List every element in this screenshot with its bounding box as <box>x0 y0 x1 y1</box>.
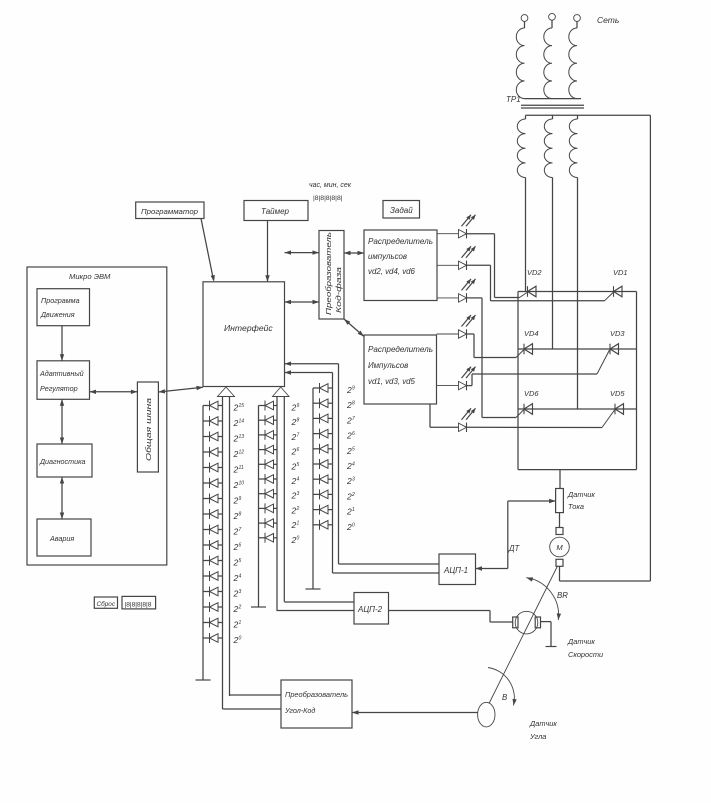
svg-text:3: 3 <box>297 491 300 497</box>
label 2^11 <box>233 465 244 475</box>
svg-text:Распределитель: Распределитель <box>368 345 433 354</box>
led A10 <box>203 540 223 550</box>
svg-text:Скорости: Скорости <box>568 650 603 659</box>
wire Интерфейс-КодФаза upper <box>285 250 320 254</box>
svg-text:5: 5 <box>239 558 242 564</box>
transformer TP1 core <box>521 105 584 108</box>
label 2^3 <box>233 589 242 599</box>
wire phase A to VD2 <box>525 178 527 292</box>
label 2^8 <box>233 511 242 521</box>
svg-text:АЦП-1: АЦП-1 <box>443 566 468 575</box>
block Программа Движения <box>37 289 90 326</box>
wire шина-Интерфейс <box>158 386 203 394</box>
svg-text:Таймер: Таймер <box>261 207 290 216</box>
block Диагностика <box>37 444 92 477</box>
led A5 <box>203 463 223 473</box>
wire Интерфейс-КодФаза lower <box>285 300 320 304</box>
svg-text:4: 4 <box>352 462 355 468</box>
wire ladder A bus to Угол-Код <box>223 695 282 709</box>
wire ladder B bus to АЦП-2 <box>277 602 354 611</box>
svg-text:Угол-Код: Угол-Код <box>284 706 315 715</box>
svg-text:13: 13 <box>239 434 245 440</box>
ground ladder B <box>251 606 266 608</box>
bus ladder A to Интерфейс (hollow arrow) <box>218 387 235 709</box>
block Программатор <box>136 202 204 219</box>
led B10 <box>259 533 278 543</box>
svg-text:Код-фаза: Код-фаза <box>334 267 343 313</box>
svg-text:8: 8 <box>239 512 242 518</box>
svg-text:4: 4 <box>239 574 242 580</box>
svg-text:7: 7 <box>239 527 242 533</box>
wire Диагностика-Авария <box>60 477 64 519</box>
current sensor Датчик Тока <box>556 489 596 513</box>
LED ladder C left rail <box>312 388 314 589</box>
svg-text:Программатор: Программатор <box>141 207 198 216</box>
svg-text:Авария: Авария <box>49 534 74 543</box>
transformer TP1 secondary windings <box>517 115 650 177</box>
label 2^5 <box>233 558 242 568</box>
svg-text:7: 7 <box>352 416 355 422</box>
bus ladder C to Интерфейс arrows <box>285 362 339 574</box>
svg-text:Сброс: Сброс <box>97 600 116 608</box>
thyristor VD3 <box>597 329 625 374</box>
svg-text:Диагностика: Диагностика <box>39 457 86 466</box>
wire gate VD1 from opto 2 <box>467 265 605 301</box>
LED ladder B left rail <box>258 406 260 608</box>
label 2^7 <box>233 527 242 537</box>
label 2^5 <box>291 461 300 471</box>
wire distributor2 to LED6 <box>430 404 459 427</box>
wire Таймер-Интерфейс <box>265 221 269 282</box>
block Сброс <box>94 597 117 608</box>
label 2^4 <box>346 461 355 471</box>
label 2^6 <box>291 447 300 457</box>
block Микро ЭВМ frame <box>27 267 167 565</box>
svg-text:9: 9 <box>352 386 355 392</box>
led C4 <box>313 429 333 439</box>
svg-text:ДТ: ДТ <box>508 544 520 553</box>
svg-text:VD5: VD5 <box>610 389 625 398</box>
motor M <box>550 513 570 581</box>
led B7 <box>259 489 278 499</box>
svg-text:VD2: VD2 <box>527 268 542 277</box>
svg-text:1: 1 <box>352 507 355 513</box>
svg-text:Тока: Тока <box>568 502 584 511</box>
led C6 <box>313 459 333 469</box>
led A6 <box>203 478 223 488</box>
svg-text:14: 14 <box>239 419 245 425</box>
wire ladder C bus to АЦП-1 <box>333 564 440 573</box>
svg-text:2: 2 <box>296 506 300 512</box>
wire phase C to row VD6-VD5 <box>577 178 579 410</box>
label 2^2 <box>233 604 242 614</box>
svg-text:8: 8 <box>352 401 355 407</box>
optocoupler LED2 <box>437 246 476 270</box>
wire gate VD2 from opto 1 <box>467 234 520 298</box>
shaft motor to angle sensor <box>489 566 558 704</box>
led B3 <box>259 430 278 440</box>
led B2 <box>259 415 278 425</box>
led B9 <box>259 518 278 528</box>
block Адаптивный Регулятор <box>37 361 90 400</box>
label 2^9 <box>233 496 242 506</box>
thyristor VD2 <box>520 268 543 298</box>
led A14 <box>203 602 223 612</box>
display час мин сек <box>309 182 352 202</box>
net Сеть terminals <box>521 13 619 28</box>
led C10 <box>313 520 333 530</box>
svg-text:1: 1 <box>239 620 242 626</box>
svg-text:М: М <box>556 543 563 552</box>
thyristor bridge frame <box>518 292 637 470</box>
block АЦП-2 <box>354 593 389 625</box>
led B6 <box>259 474 278 484</box>
svg-text:0: 0 <box>297 535 300 541</box>
svg-text:11: 11 <box>239 465 244 471</box>
led B8 <box>259 503 278 513</box>
led C2 <box>313 398 333 408</box>
svg-text:Движения: Движения <box>40 310 75 319</box>
wire tacho right to ground <box>541 622 557 647</box>
svg-text:2: 2 <box>238 605 242 611</box>
led A9 <box>203 525 223 535</box>
svg-text:VD1: VD1 <box>613 268 628 277</box>
optocoupler LED4 <box>437 315 476 339</box>
ground ladder A <box>196 679 211 681</box>
led A7 <box>203 494 223 504</box>
block Задай <box>383 201 420 219</box>
led A11 <box>203 556 223 566</box>
block Таймер <box>244 201 308 221</box>
wire АЦП-2 to tacho <box>389 611 513 623</box>
label Датчик Угла <box>529 719 557 741</box>
wire secondary neutral bus to motor <box>560 115 651 581</box>
svg-text:Программа: Программа <box>41 296 80 305</box>
led A1 <box>203 401 223 411</box>
transformer TP1 primary windings <box>506 28 581 104</box>
svg-text:9: 9 <box>297 403 300 409</box>
block Распределитель импульсов vd2 vd4 vd6 <box>364 230 437 301</box>
svg-text:|8|8|8|8|8|: |8|8|8|8|8| <box>313 195 343 202</box>
arc BR rotation <box>526 577 568 620</box>
wire gate VD6 from opto 3 <box>467 298 517 418</box>
svg-text:VD6: VD6 <box>524 389 539 398</box>
block АЦП-1 <box>439 554 476 585</box>
label Датчик Скорости <box>567 637 603 659</box>
label 2^4 <box>233 573 242 583</box>
led C1 <box>313 383 333 393</box>
svg-text:Датчик: Датчик <box>529 719 557 728</box>
wire Адаптивный-шина <box>90 390 138 394</box>
label 2^7 <box>291 432 300 442</box>
led C3 <box>313 413 333 423</box>
bus ladder B to Интерфейс (hollow arrow) <box>273 387 290 611</box>
optocoupler LED3 <box>437 279 476 303</box>
svg-text:Преобразователь: Преобразователь <box>324 232 333 315</box>
label 2^12 <box>233 449 245 459</box>
led C9 <box>313 505 333 515</box>
label 2^4 <box>291 476 300 486</box>
label 2^8 <box>291 417 300 427</box>
tachogenerator Датчик Скорости <box>513 611 541 634</box>
led B4 <box>259 445 278 455</box>
svg-text:BR: BR <box>557 591 568 600</box>
label 2^0 <box>346 522 355 532</box>
led C8 <box>313 489 333 499</box>
svg-text:1: 1 <box>297 521 300 527</box>
label 2^7 <box>346 415 355 425</box>
label 2^8 <box>346 400 355 410</box>
svg-text:6: 6 <box>352 431 355 437</box>
optocoupler LED6 <box>459 408 476 432</box>
label 2^15 <box>233 403 245 413</box>
label 2^5 <box>346 446 355 456</box>
wire ДТ to АЦП-1 <box>476 499 556 571</box>
label 2^0 <box>233 635 242 645</box>
svg-text:Преобразователь: Преобразователь <box>285 690 348 699</box>
svg-text:10: 10 <box>239 481 245 487</box>
svg-text:4: 4 <box>297 477 300 483</box>
display digits <box>122 596 156 609</box>
svg-text:0: 0 <box>352 522 355 528</box>
block Преобразователь Угол-Код <box>281 680 352 728</box>
ground ladder C <box>306 588 321 590</box>
svg-text:9: 9 <box>239 496 242 502</box>
svg-text:6: 6 <box>239 543 242 549</box>
svg-text:2: 2 <box>351 492 355 498</box>
label 2^3 <box>291 491 300 501</box>
label 2^9 <box>346 385 355 395</box>
led A13 <box>203 587 223 597</box>
label 2^1 <box>291 520 300 530</box>
wire phase B to row VD4-VD3 <box>552 178 554 350</box>
svg-text:15: 15 <box>239 403 245 409</box>
label 2^1 <box>233 620 242 630</box>
svg-text:6: 6 <box>297 447 300 453</box>
svg-text:импульсов: импульсов <box>368 252 407 261</box>
svg-text:Угла: Угла <box>529 732 546 741</box>
led A16 <box>203 633 223 643</box>
svg-text:Общая шина: Общая шина <box>144 398 153 461</box>
wire Программа-Адаптивный <box>60 326 64 361</box>
block Интерфейс <box>203 282 285 387</box>
arc rotation at В <box>488 668 517 706</box>
label 2^9 <box>291 403 300 413</box>
label 2^1 <box>346 507 355 517</box>
optocoupler LED5 <box>437 367 476 391</box>
led A3 <box>203 432 223 442</box>
svg-text:VD3: VD3 <box>610 329 625 338</box>
svg-text:АЦП-2: АЦП-2 <box>357 605 383 614</box>
label 2^6 <box>233 542 242 552</box>
svg-text:час, мин, сек: час, мин, сек <box>309 182 352 189</box>
wire Адаптивный-Диагностика <box>60 399 64 444</box>
svg-text:5: 5 <box>297 462 300 468</box>
svg-text:5: 5 <box>352 446 355 452</box>
label 2^0 <box>291 535 300 545</box>
svg-text:Распределитель: Распределитель <box>368 237 433 246</box>
svg-text:Датчик: Датчик <box>567 490 595 499</box>
svg-text:Адаптивный: Адаптивный <box>39 369 84 378</box>
svg-text:ТР1: ТР1 <box>506 95 521 104</box>
label 2^2 <box>291 505 300 515</box>
wire gate VD4 from opto 4 <box>467 334 517 358</box>
wire bridge to current sensor <box>559 470 561 489</box>
svg-text:Микро ЭВМ: Микро ЭВМ <box>69 272 111 281</box>
led A8 <box>203 509 223 519</box>
wire КодФаза-распределитель2 <box>344 319 364 337</box>
led A15 <box>203 618 223 628</box>
led C7 <box>313 474 333 484</box>
wire В to Угол-Код <box>352 710 478 714</box>
svg-text:8: 8 <box>297 418 300 424</box>
wire Программатор-Интерфейс <box>201 219 215 282</box>
svg-text:В: В <box>502 693 507 702</box>
svg-text:|8|8|8|8|8: |8|8|8|8|8 <box>125 601 152 608</box>
led A12 <box>203 571 223 581</box>
svg-text:Датчик: Датчик <box>567 637 595 646</box>
svg-text:Регулятор: Регулятор <box>40 384 78 393</box>
angle sensor В <box>478 693 508 727</box>
svg-text:3: 3 <box>239 589 242 595</box>
led A4 <box>203 447 223 457</box>
led B5 <box>259 459 278 469</box>
wire gate VD5 from opto 6 <box>467 426 603 428</box>
thyristor VD6 <box>516 389 539 418</box>
wire gate VD3 from opto 5 <box>467 374 598 386</box>
thyristor VD1 <box>605 268 628 301</box>
thyristor VD5 <box>602 389 625 428</box>
block Общая шина <box>137 382 158 472</box>
label 2^10 <box>233 480 245 490</box>
optocoupler LED1 <box>437 215 476 239</box>
block Авария <box>37 519 91 556</box>
svg-text:12: 12 <box>239 450 245 456</box>
label 2^13 <box>233 434 245 444</box>
block Распределитель Импульсов vd1 vd3 vd5 <box>364 335 437 404</box>
LED ladder A left rail <box>202 406 204 681</box>
svg-text:vd1, vd3, vd5: vd1, vd3, vd5 <box>368 377 416 386</box>
led C5 <box>313 444 333 454</box>
led B1 <box>259 401 278 411</box>
svg-text:3: 3 <box>352 477 355 483</box>
label 2^6 <box>346 431 355 441</box>
led A2 <box>203 416 223 426</box>
svg-text:VD4: VD4 <box>524 329 539 338</box>
svg-text:Сеть: Сеть <box>597 15 619 25</box>
svg-text:vd2, vd4, vd6: vd2, vd4, vd6 <box>368 267 416 276</box>
label 2^3 <box>346 476 355 486</box>
svg-text:Интерфейс: Интерфейс <box>224 323 273 333</box>
label 2^2 <box>346 491 355 501</box>
svg-text:0: 0 <box>239 636 242 642</box>
block Преобразователь Код-Фаза <box>319 231 344 320</box>
thyristor VD4 <box>516 329 539 358</box>
wire КодФаза-распределитель1 <box>344 251 364 255</box>
svg-text:7: 7 <box>297 432 300 438</box>
svg-text:Импульсов: Импульсов <box>368 361 408 370</box>
label 2^14 <box>233 418 245 428</box>
svg-text:Задай: Задай <box>390 206 413 215</box>
